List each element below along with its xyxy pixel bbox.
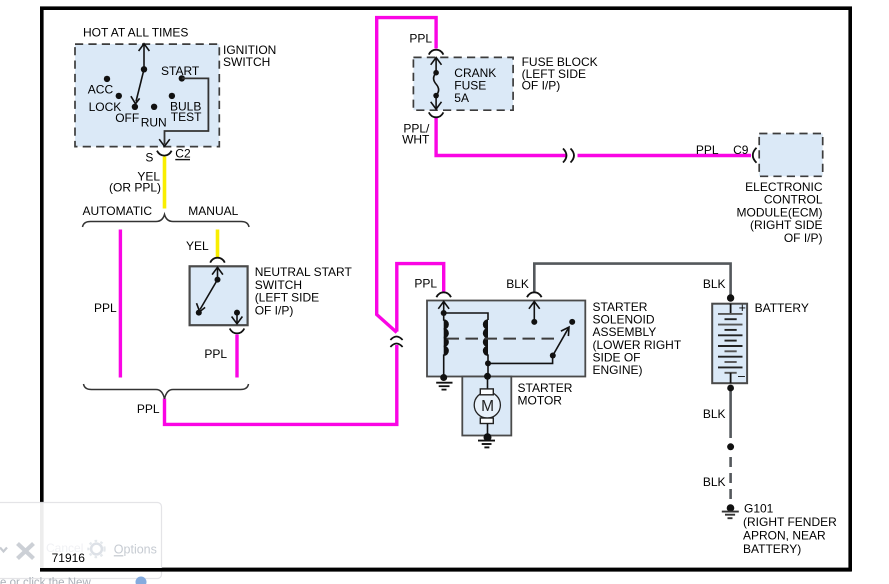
battery ground splice dot xyxy=(727,443,734,450)
svg-text:S: S xyxy=(145,151,153,165)
solenoid coil wire to motor dot xyxy=(487,363,489,376)
ignition switch hot feed arrow xyxy=(139,44,150,70)
motor ground dot xyxy=(484,433,492,441)
svg-text:TEST: TEST xyxy=(171,110,202,124)
svg-text:ACC: ACC xyxy=(88,83,114,97)
label PPL at ECM xyxy=(696,143,719,157)
label FUSE BLOCK xyxy=(522,55,598,93)
OFF contact dot xyxy=(132,104,138,110)
toolbar close icon xyxy=(18,544,34,559)
svg-text:e or click the New: e or click the New xyxy=(0,577,91,584)
solenoid BLK pin connector xyxy=(527,292,542,297)
svg-text:OF I/P): OF I/P) xyxy=(784,231,823,245)
svg-text:AUTOMATIC: AUTOMATIC xyxy=(83,204,153,218)
wire PPL from join brace to solenoid riser xyxy=(165,345,397,424)
ground at solenoid xyxy=(436,383,452,390)
fuse top connector xyxy=(429,50,444,55)
pull-in coil xyxy=(444,313,448,378)
svg-text:M: M xyxy=(481,398,494,415)
svg-text:ENGINE): ENGINE) xyxy=(593,363,643,377)
label AUTOMATIC xyxy=(83,204,153,218)
svg-text:OFF: OFF xyxy=(115,111,139,125)
label YEL (OR PPL) xyxy=(109,170,161,195)
battery positive dot xyxy=(727,294,734,301)
label C9 xyxy=(733,143,749,157)
solenoid fixed contact dot xyxy=(569,319,575,325)
wire PPL diagonal jog to fuse feed xyxy=(377,18,436,333)
wire PPL/WHT from fuse to ECM xyxy=(436,117,751,156)
label NEUTRAL START SWITCH xyxy=(255,265,353,317)
wire YEL manual branch xyxy=(216,230,220,258)
svg-text:PPL: PPL xyxy=(409,32,432,46)
svg-text:OF I/P): OF I/P) xyxy=(255,303,294,317)
starter motor box xyxy=(462,377,511,436)
label BLK below battery xyxy=(703,407,726,421)
svg-text:BLK: BLK xyxy=(703,407,726,421)
svg-text:PPL: PPL xyxy=(137,402,160,416)
wire YEL from ignition S to split brace xyxy=(163,157,167,209)
label RUN xyxy=(141,116,167,130)
label 71916 xyxy=(52,551,86,565)
svg-text:BATTERY): BATTERY) xyxy=(743,542,801,556)
ignition switch wiper arm xyxy=(131,69,144,104)
ECM connector C9 xyxy=(753,148,757,163)
wire PPL below neutral start switch xyxy=(235,335,238,378)
hold-in coil xyxy=(484,320,488,363)
inline connector on ECM wire xyxy=(563,149,574,163)
toolbar overlay xyxy=(0,503,162,579)
label CRANK FUSE 5A xyxy=(454,66,496,105)
label STARTER MOTOR xyxy=(518,381,573,408)
ECM box xyxy=(759,134,823,177)
label MANUAL xyxy=(188,204,238,218)
neutral start switch box xyxy=(190,266,248,325)
wire BLK dashed to ground xyxy=(729,457,732,499)
wire BLK solenoid to battery xyxy=(534,264,730,296)
solenoid coil junction dot xyxy=(441,310,447,316)
split brace automatic/manual xyxy=(83,215,250,228)
svg-text:C9: C9 xyxy=(733,143,749,157)
ground G101 xyxy=(722,512,739,519)
toolbar options text xyxy=(114,543,157,557)
solenoid BLK pin arrow xyxy=(529,302,540,322)
neutral start switch output arrow xyxy=(232,313,243,324)
label PPL below NSS xyxy=(204,347,227,361)
svg-text:PPL: PPL xyxy=(204,347,227,361)
label ELECTRONIC CONTROL MODULE xyxy=(737,180,823,245)
wire to hold-in coil xyxy=(444,313,488,320)
ignition switch box xyxy=(75,44,219,147)
svg-text:BLK: BLK xyxy=(506,277,529,291)
svg-text:(RIGHT FENDER: (RIGHT FENDER xyxy=(743,515,837,529)
label BLK at battery xyxy=(703,277,726,291)
wire BLK battery negative lead xyxy=(729,386,732,438)
hold-in coil output dot xyxy=(485,360,491,366)
label OFF xyxy=(115,111,139,125)
battery box xyxy=(712,304,747,384)
battery plus sign xyxy=(739,301,746,315)
svg-text:RUN: RUN xyxy=(141,116,167,130)
fuse block box xyxy=(413,57,513,110)
svg-text:MOTOR: MOTOR xyxy=(518,394,563,408)
label STARTER SOLENOID ASSEMBLY xyxy=(593,300,682,377)
solenoid contact arm dot xyxy=(550,353,556,359)
svg-text:HOT AT ALL TIMES: HOT AT ALL TIMES xyxy=(83,26,188,40)
status blue icon xyxy=(136,577,147,584)
wire PPL riser above inline connector with branch to solenoid xyxy=(397,264,444,332)
label BULB xyxy=(170,100,201,114)
solenoid PPL pin arrow xyxy=(438,302,449,314)
START contact dot xyxy=(179,75,185,81)
LOCK contact dot xyxy=(116,93,122,99)
status text below frame xyxy=(0,577,91,584)
solenoid BLK contact dot xyxy=(531,319,537,325)
neutral start switch output dot xyxy=(234,310,240,316)
fuse bottom connector xyxy=(429,112,444,117)
label PPL automatic xyxy=(94,301,117,315)
svg-text:START: START xyxy=(161,64,200,78)
wire hold-in coil to contact arm xyxy=(488,356,553,363)
svg-text:(OR PPL): (OR PPL) xyxy=(109,181,161,195)
starter solenoid box xyxy=(427,301,585,377)
starter motor symbol xyxy=(474,376,500,437)
svg-text:–: – xyxy=(738,369,745,383)
solenoid PPL pin connector xyxy=(436,292,451,297)
svg-text:MANUAL: MANUAL xyxy=(188,204,238,218)
ignition pivot dot xyxy=(141,66,147,72)
inline connector C on riser xyxy=(390,337,402,348)
svg-text:Options: Options xyxy=(114,543,157,557)
battery minus sign xyxy=(738,369,745,383)
label BLK at dashed xyxy=(703,475,726,489)
label LOCK xyxy=(89,100,122,114)
label BLK at solenoid xyxy=(506,277,529,291)
toolbar faded cancel text xyxy=(46,541,83,555)
svg-text:SWITCH: SWITCH xyxy=(223,55,270,69)
label HOT AT ALL TIMES xyxy=(83,26,188,40)
svg-text:G101: G101 xyxy=(744,502,774,516)
label C2 xyxy=(175,147,191,161)
connector S C2 at ignition xyxy=(157,151,172,156)
label IGNITION SWITCH xyxy=(223,43,276,69)
label S terminal xyxy=(145,151,153,165)
solenoid contact arm arrow xyxy=(553,327,569,355)
toolbar gear icon xyxy=(88,541,104,557)
wire PPL automatic branch xyxy=(119,230,122,378)
svg-text:PPL: PPL xyxy=(94,301,117,315)
label BATTERY xyxy=(755,301,809,315)
svg-text:OF I/P): OF I/P) xyxy=(522,79,561,93)
battery negative dot xyxy=(727,385,734,392)
ground at motor xyxy=(478,441,495,448)
frame bottom edge over overlay xyxy=(40,568,852,572)
RUN contact dot xyxy=(151,104,157,110)
toolbar caret icon xyxy=(0,548,7,552)
crank fuse element xyxy=(431,58,442,110)
label G101 xyxy=(743,502,837,556)
battery plates xyxy=(718,304,743,384)
ACC contact dot xyxy=(104,76,110,82)
svg-text:BATTERY: BATTERY xyxy=(755,301,809,315)
neutral start switch wiper arm xyxy=(197,280,218,312)
neutral start switch bottom connector xyxy=(230,329,245,334)
label PPL at join xyxy=(137,402,160,416)
label ACC xyxy=(88,83,114,97)
svg-text:PPL: PPL xyxy=(696,143,719,157)
label TEST xyxy=(171,110,202,124)
svg-text:BLK: BLK xyxy=(703,277,726,291)
svg-text:C2: C2 xyxy=(175,147,191,161)
label YEL manual xyxy=(186,239,209,253)
solenoid ground dot xyxy=(440,374,447,381)
neutral start switch lower contact dot xyxy=(196,310,202,316)
BULB TEST contact dot xyxy=(169,93,175,99)
svg-text:BLK: BLK xyxy=(703,475,726,489)
G101 ground dot xyxy=(727,504,735,512)
label START xyxy=(161,64,200,78)
join brace to PPL xyxy=(84,384,249,399)
label PPL top feed xyxy=(409,32,432,46)
label PPL at solenoid xyxy=(414,277,437,291)
START output wire to S terminal xyxy=(159,78,208,146)
svg-text:YEL: YEL xyxy=(186,239,209,253)
label PPL/WHT xyxy=(402,122,430,147)
neutral start switch pin arrow xyxy=(212,267,223,279)
motor feed dot xyxy=(484,373,491,380)
svg-text:+: + xyxy=(739,301,746,315)
svg-text:WHT: WHT xyxy=(402,133,430,147)
neutral start switch top connector xyxy=(210,258,225,263)
solenoid linkage dashed line xyxy=(447,338,558,340)
svg-text:5A: 5A xyxy=(454,91,469,105)
svg-text:PPL: PPL xyxy=(414,277,437,291)
svg-text:APRON, NEAR: APRON, NEAR xyxy=(743,528,826,542)
neutral start switch pivot dot xyxy=(215,277,221,283)
svg-text:71916: 71916 xyxy=(52,551,86,565)
